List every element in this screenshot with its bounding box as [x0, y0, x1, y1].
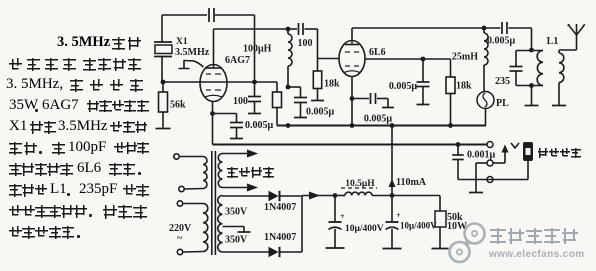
watermark brand text — [490, 228, 580, 246]
antenna — [568, 24, 586, 50]
capacitor 0.005u cathode bypass — [213, 114, 274, 139]
label modulation signal CJK — [538, 148, 582, 166]
wire grid 6L6 — [318, 29, 340, 59]
watermark url — [489, 249, 585, 260]
wire rectifier output — [302, 192, 337, 253]
lamp PL — [477, 92, 509, 126]
diode D2 1N4007 — [264, 232, 302, 257]
transformer core — [212, 151, 216, 255]
capacitor 100 screen bypass — [233, 82, 261, 114]
node screen 6AG7 — [252, 80, 257, 85]
wire bus B (modulation rail) — [213, 144, 488, 146]
capacitor 0.005u plate coupling — [487, 22, 532, 50]
wire feedback top — [162, 15, 255, 82]
wire jack bottom — [458, 161, 528, 180]
wire grid line — [161, 80, 277, 85]
wire cathode 6L6 — [350, 77, 355, 126]
node plate-choke — [286, 27, 291, 32]
node modulation — [456, 142, 461, 147]
wire cathode 6AG7 — [210, 102, 215, 145]
capacitor filter 2 10u/400V — [383, 196, 438, 249]
capacitor 235 tank — [495, 51, 543, 88]
center tap ground — [223, 227, 251, 246]
jack terminal top — [487, 142, 493, 148]
ground grid-stop mark — [179, 60, 204, 69]
transformer terminals — [174, 154, 179, 159]
inductor L1 secondary — [559, 50, 577, 83]
diode D1 1N4007 — [264, 191, 302, 213]
inductor L1 primary — [537, 36, 558, 86]
jack switch arrow — [493, 145, 509, 164]
capacitor 0.001u modulation — [452, 145, 495, 180]
inductor 10.5uH filter choke — [335, 179, 440, 196]
wire bus A (HT rail) — [277, 123, 486, 128]
node tank top — [529, 48, 534, 53]
capacitor 0.005u screen bypass 6L6 — [389, 59, 430, 105]
ground tank — [525, 83, 539, 105]
capacitor 0.005u supply bypass — [288, 87, 335, 118]
capacitor 100 coupling — [288, 23, 318, 49]
capacitor 0.005u cathode 6L6 — [352, 93, 394, 125]
plug icon — [523, 142, 533, 161]
capacitor feedback top — [209, 8, 214, 22]
resistor 56k — [156, 82, 187, 129]
filament arrows — [223, 150, 259, 192]
capacitor filter 1 10u/400V — [326, 196, 384, 249]
node choke bottom — [286, 85, 291, 90]
wire HT riser 110mA — [389, 126, 427, 198]
tap 350V upper — [223, 196, 269, 218]
resistor 50k 10W bleeder — [432, 196, 468, 249]
jack terminal bottom — [487, 177, 493, 183]
transformer primary 220V winding — [169, 204, 208, 253]
jack notch — [511, 143, 519, 148]
wire plate 6L6 top bus — [352, 28, 501, 41]
transformer HV winding — [218, 196, 223, 253]
resistor 18k screen 6L6 — [446, 59, 472, 126]
resistor screen feed — [273, 82, 282, 126]
tube 6AG7 — [200, 55, 250, 102]
tap 350V lower — [223, 251, 269, 253]
crystal X1 — [154, 37, 210, 82]
ground secondary — [552, 83, 566, 106]
wire plate 6AG7 — [214, 29, 289, 65]
inductor 25mH — [452, 26, 488, 92]
inductor 100uH — [243, 29, 292, 87]
jack middle ground — [469, 163, 487, 193]
tube 6L6 — [339, 41, 386, 77]
label filament voltage CJK — [227, 167, 275, 185]
transformer primary upper winding — [179, 157, 207, 190]
resistor 18k grid leak — [311, 59, 340, 101]
wire screen 6L6 — [365, 57, 451, 62]
transformer filament winding — [218, 154, 222, 188]
jack terminal middle — [487, 160, 493, 166]
